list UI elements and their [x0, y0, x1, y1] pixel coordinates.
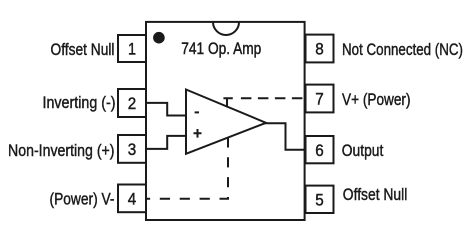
- wire V- dashed: pin 4 to op-amp bottom edge: [146, 137, 228, 198]
- inverting input minus sign: [195, 111, 199, 113]
- svg-text:Inverting (-): Inverting (-): [43, 93, 116, 112]
- svg-text:(Power) V-: (Power) V-: [50, 190, 115, 209]
- svg-text:741 Op. Amp: 741 Op. Amp: [181, 40, 261, 58]
- svg-text:V+ (Power): V+ (Power): [342, 90, 411, 109]
- IC body U1 (741 DIP-8 package outline): [146, 22, 305, 220]
- wire pin 2 to inverting input: [146, 103, 186, 116]
- pin 1 box: [118, 35, 146, 62]
- pin 7 box: [306, 85, 334, 113]
- svg-text:5: 5: [315, 191, 324, 210]
- wire op-amp output to pin 6: [265, 123, 306, 150]
- svg-text:Non-Inverting (+): Non-Inverting (+): [8, 141, 115, 160]
- svg-text:3: 3: [128, 140, 137, 159]
- notch (pin-1 end indicator semicircle): [213, 22, 239, 35]
- svg-text:7: 7: [315, 90, 324, 109]
- svg-text:Offset Null: Offset Null: [51, 40, 115, 59]
- pin 4 box: [118, 185, 146, 213]
- wire pin 3 to non-inverting input: [146, 136, 186, 149]
- svg-text:8: 8: [315, 40, 324, 59]
- pin 6 box: [306, 136, 334, 163]
- svg-text:4: 4: [128, 190, 137, 209]
- pin 3 box: [118, 135, 146, 163]
- non-inverting input plus sign: [194, 129, 202, 138]
- svg-text:Output: Output: [342, 141, 384, 160]
- svg-text:1: 1: [128, 40, 136, 59]
- svg-text:Offset Null: Offset Null: [343, 185, 408, 204]
- svg-text:6: 6: [315, 141, 324, 160]
- pin 8 box: [306, 35, 334, 63]
- svg-text:2: 2: [128, 94, 137, 113]
- wire V+ dashed: pin 7 to op-amp top edge: [223, 98, 232, 107]
- svg-text:Not Connected (NC): Not Connected (NC): [342, 40, 463, 59]
- pin-1 marker dot: [153, 32, 165, 44]
- pin 5 box: [306, 186, 334, 213]
- op-amp A1 triangle: [186, 90, 266, 154]
- pin 2 box: [118, 89, 146, 117]
